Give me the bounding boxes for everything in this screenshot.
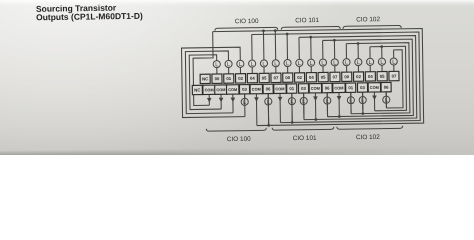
terminal top 6 07 xyxy=(271,73,281,82)
junction xyxy=(291,121,294,124)
terminal bottom 15 COM xyxy=(368,83,380,92)
svg-text:00: 00 xyxy=(215,76,220,81)
svg-text:COM: COM xyxy=(370,85,379,90)
wire bottom riser loop L5 xyxy=(350,92,352,113)
svg-text:03: 03 xyxy=(242,87,247,92)
load L on output 05 (top col 5) xyxy=(260,60,267,67)
svg-text:06: 06 xyxy=(266,86,271,91)
wire loop L7 top bus xyxy=(386,50,403,108)
junction xyxy=(309,36,312,39)
wire T1 left leg wrap xyxy=(193,32,214,106)
wire below load bottom col 9 xyxy=(303,104,305,119)
wire left wrap 3 xyxy=(189,55,221,110)
load L on output 04 (top col 9) xyxy=(308,59,315,66)
wire drop bottom COM3 xyxy=(232,94,234,113)
svg-text:02: 02 xyxy=(238,76,243,81)
terminal bottom 8 01 xyxy=(287,84,297,93)
wire stub load 00 top xyxy=(216,68,218,74)
bracket CIO 100 top xyxy=(215,27,278,30)
svg-text:L: L xyxy=(326,99,329,105)
wire below load bottom col 6 xyxy=(267,105,269,125)
svg-text:L: L xyxy=(349,98,352,104)
wire bottom riser loop L3 xyxy=(303,93,305,120)
wire below load bottom col 16 xyxy=(385,103,387,108)
svg-text:03: 03 xyxy=(301,86,306,91)
svg-text:L: L xyxy=(262,62,265,68)
svg-text:COM: COM xyxy=(252,87,261,92)
svg-text:04: 04 xyxy=(368,74,373,79)
svg-text:07: 07 xyxy=(274,75,279,80)
supply arrow under COM (bottom col 3) xyxy=(231,98,236,103)
junction xyxy=(274,29,277,32)
bracket CIO 102 top xyxy=(343,25,401,28)
wire drop to load x=335 xyxy=(333,40,335,59)
svg-text:COM: COM xyxy=(216,87,225,92)
wire below load bottom col 8 xyxy=(291,105,293,123)
wire below load bottom col 14 xyxy=(362,104,364,111)
svg-text:CIO 100: CIO 100 xyxy=(227,136,251,143)
load L on output 00 (top col 12) xyxy=(343,59,350,66)
svg-text:L: L xyxy=(357,60,360,66)
load L on output 01 (top col 2) xyxy=(225,60,232,67)
svg-text:L: L xyxy=(361,98,364,104)
wire left wrap 1 xyxy=(182,47,245,117)
terminal bottom 12 COM xyxy=(333,83,345,92)
wire stub load 05 top xyxy=(322,66,324,72)
svg-text:L: L xyxy=(380,60,383,66)
terminal top 14 04 xyxy=(365,72,375,81)
svg-text:02: 02 xyxy=(356,74,361,79)
svg-text:CIO 102: CIO 102 xyxy=(356,134,380,141)
terminal top 16 07 xyxy=(389,71,399,80)
load L on output 02 (top col 3) xyxy=(237,60,244,67)
load L on output 01 (bottom col 8) xyxy=(291,93,293,97)
svg-text:L: L xyxy=(345,60,348,66)
load L on output 07 (top col 16) xyxy=(390,58,397,65)
svg-text:COM: COM xyxy=(205,87,214,92)
svg-text:L: L xyxy=(302,99,305,105)
svg-text:04: 04 xyxy=(309,75,314,80)
junction xyxy=(286,33,289,36)
svg-text:L: L xyxy=(274,61,277,67)
wire stub load 00 top xyxy=(346,66,348,72)
junction xyxy=(267,124,270,127)
svg-text:L: L xyxy=(298,61,301,67)
terminal top 11 07 xyxy=(330,72,340,81)
wire loop L5 top bus xyxy=(346,43,410,114)
junction xyxy=(357,42,360,45)
svg-text:CIO 102: CIO 102 xyxy=(356,16,380,23)
terminal top 4 04 xyxy=(247,73,257,82)
terminal top 5 05 xyxy=(259,73,269,82)
load L on output 05 (top col 10) xyxy=(319,59,326,66)
junction xyxy=(314,118,317,121)
wire drop to load x=311 xyxy=(310,37,312,59)
wire stub load 02 top xyxy=(239,67,241,73)
terminal top 13 02 xyxy=(353,72,363,81)
svg-text:L: L xyxy=(243,100,246,106)
load L on output 01 (bottom col 13) xyxy=(350,92,352,96)
wire stub load 00 top xyxy=(287,67,289,73)
svg-text:07: 07 xyxy=(392,74,397,79)
svg-text:CIO 101: CIO 101 xyxy=(293,135,317,142)
svg-text:NC: NC xyxy=(194,87,200,92)
wire stub load 02 top xyxy=(357,66,359,72)
svg-text:L: L xyxy=(321,61,324,67)
junction xyxy=(262,29,265,32)
svg-text:L: L xyxy=(251,62,254,68)
load L on output 00 (top col 1) xyxy=(213,61,220,68)
svg-text:COM: COM xyxy=(311,86,320,91)
terminal top 10 05 xyxy=(318,72,328,81)
load L on output 02 (top col 8) xyxy=(296,59,303,66)
wire stub load 01 top xyxy=(228,68,230,74)
wire loop L3 top bus xyxy=(299,36,417,120)
svg-text:L: L xyxy=(369,60,372,66)
load L on output 05 (top col 15) xyxy=(378,58,385,65)
terminal top 9 04 xyxy=(306,73,316,82)
svg-text:COM: COM xyxy=(275,86,284,91)
svg-text:L: L xyxy=(392,60,395,66)
svg-text:01: 01 xyxy=(226,76,231,81)
supply arrow under COM (bottom col 15) xyxy=(372,95,377,100)
svg-text:CIO 100: CIO 100 xyxy=(235,18,259,25)
wire bottom riser loop L4 xyxy=(326,93,328,117)
terminal bottom 7 COM xyxy=(274,84,286,93)
wire drop bottom x=339 xyxy=(338,93,340,117)
load L on output 00 (top col 7) xyxy=(284,59,291,66)
supply arrow under COM (bottom col 5) xyxy=(254,97,259,102)
svg-text:L: L xyxy=(385,98,388,104)
terminal bottom 11 06 xyxy=(322,83,332,92)
load L on output 02 (top col 13) xyxy=(355,58,362,65)
wire drop bottom x=268 xyxy=(267,94,269,126)
wire drop to load x=276 xyxy=(274,31,276,60)
terminal bottom 16 06 xyxy=(381,82,391,91)
wire bottom riser loop L1 xyxy=(255,94,257,126)
svg-text:00: 00 xyxy=(344,74,349,79)
svg-text:00: 00 xyxy=(285,75,290,80)
terminal bottom 2 COM xyxy=(215,85,227,94)
wire riser loop L2 xyxy=(251,35,253,61)
terminal bottom 14 03 xyxy=(357,83,367,92)
wire riser loop L3 xyxy=(298,37,300,59)
wire stub load 05 top xyxy=(263,67,265,73)
load L on output 03 (bottom col 4) xyxy=(244,94,246,98)
load L on output 04 (top col 4) xyxy=(249,60,256,67)
terminal bottom 6 06 xyxy=(263,84,273,93)
supply arrow under COM (bottom col 1) xyxy=(207,98,212,103)
svg-text:03: 03 xyxy=(360,85,365,90)
terminal top 7 00 xyxy=(283,73,293,82)
terminal bottom 4 03 xyxy=(239,85,249,94)
terminal top 2 01 xyxy=(224,74,234,83)
svg-text:05: 05 xyxy=(262,75,267,80)
terminal bottom 1 COM xyxy=(203,85,215,94)
svg-text:05: 05 xyxy=(321,75,326,80)
supply arrow under COM (bottom col 10) xyxy=(313,96,318,101)
svg-text:05: 05 xyxy=(380,74,385,79)
svg-text:L: L xyxy=(310,61,313,67)
load L on output 07 (top col 6) xyxy=(272,60,279,67)
wire loop L6 top bus xyxy=(370,46,407,111)
terminal top 8 02 xyxy=(294,73,304,82)
terminal bottom 3 COM xyxy=(226,85,238,94)
wire drop to load x=382 xyxy=(381,47,383,59)
wire drop to load x=264 xyxy=(262,31,264,60)
wire stub load 05 top xyxy=(381,65,383,71)
svg-text:COM: COM xyxy=(334,85,343,90)
terminal top 3 02 xyxy=(236,74,246,83)
wire drop bottom x=362 xyxy=(362,92,364,113)
wire stub load 07 top xyxy=(334,66,336,72)
terminal bottom 10 COM xyxy=(309,83,321,92)
supply arrow under COM (bottom col 7) xyxy=(278,97,283,102)
bracket CIO 100 bottom xyxy=(206,128,266,131)
svg-text:NC: NC xyxy=(202,76,208,81)
wire riser loop L4 xyxy=(322,40,324,59)
svg-text:06: 06 xyxy=(384,85,389,90)
wire riser loop L5 xyxy=(345,44,347,59)
load L on output 06 (bottom col 11) xyxy=(326,93,328,97)
wire loop L2 top bus xyxy=(252,32,420,123)
terminal top 0 NC xyxy=(200,74,210,83)
junction xyxy=(362,112,365,115)
svg-text:L: L xyxy=(239,62,242,68)
svg-text:06: 06 xyxy=(325,86,330,91)
terminal bottom 0 NC xyxy=(192,85,202,94)
wire below load bottom col 11 xyxy=(326,104,328,117)
svg-text:L: L xyxy=(286,61,289,67)
wire left wrap 2 xyxy=(185,51,233,114)
wire loop L1 top bus xyxy=(213,28,424,126)
svg-text:CIO 101: CIO 101 xyxy=(295,17,319,24)
load L on output 03 (bottom col 9) xyxy=(303,93,305,97)
wire drop bottom COM2 xyxy=(220,94,222,109)
wire drop bottom x=315 xyxy=(314,93,316,120)
junction xyxy=(338,115,341,118)
supply arrow under COM (bottom col 2) xyxy=(219,98,224,103)
bracket CIO 102 bottom xyxy=(337,126,403,129)
wire stub load 04 top xyxy=(251,67,253,73)
wire stub load 04 top xyxy=(369,65,371,71)
terminal top 15 05 xyxy=(377,72,387,81)
wire below load bottom col 13 xyxy=(350,104,352,114)
wire stub load 07 top xyxy=(393,65,395,71)
svg-text:07: 07 xyxy=(333,74,338,79)
terminal top 1 00 xyxy=(212,74,222,83)
wire loop L4 top bus xyxy=(323,39,414,117)
svg-text:Outputs (CP1L-M60DT1-D): Outputs (CP1L-M60DT1-D) xyxy=(36,11,143,23)
load L on output 07 (top col 11) xyxy=(331,59,338,66)
load L on output 04 (top col 14) xyxy=(367,58,374,65)
svg-text:02: 02 xyxy=(297,75,302,80)
junction xyxy=(333,39,336,42)
wire drop bottom x=292 xyxy=(291,93,293,122)
svg-text:L: L xyxy=(290,99,293,105)
terminal bottom 13 01 xyxy=(346,83,356,92)
wire riser loop L6 xyxy=(369,47,371,59)
svg-text:COM: COM xyxy=(228,87,237,92)
wire stub load 07 top xyxy=(275,67,277,73)
junction xyxy=(380,45,383,48)
wire stub load 02 top xyxy=(298,67,300,73)
svg-text:L: L xyxy=(227,62,230,68)
wire bottom riser loop L7 xyxy=(385,92,387,108)
svg-text:01: 01 xyxy=(348,85,353,90)
wire drop bottom COM1 xyxy=(208,94,210,105)
wire drop to load x=288 xyxy=(286,34,288,60)
svg-text:L: L xyxy=(333,60,336,66)
load L on output 06 (bottom col 6) xyxy=(267,94,269,98)
wire stub load 04 top xyxy=(310,66,312,72)
bracket CIO 101 bottom xyxy=(272,127,334,130)
terminal bottom 5 COM xyxy=(250,84,262,93)
wire riser loop L7 xyxy=(393,50,395,58)
wire drop bottom 03 xyxy=(244,94,246,117)
svg-text:L: L xyxy=(215,62,218,68)
load L on output 03 (bottom col 14) xyxy=(362,92,364,96)
svg-text:L: L xyxy=(267,100,270,106)
terminal top 12 00 xyxy=(342,72,352,81)
svg-text:04: 04 xyxy=(250,76,255,81)
svg-text:01: 01 xyxy=(289,86,294,91)
supply arrow under COM (bottom col 12) xyxy=(337,96,342,101)
wire drop to load x=359 xyxy=(357,43,359,58)
load L on output 06 (bottom col 16) xyxy=(385,92,387,96)
terminal bottom 9 03 xyxy=(298,84,308,93)
wire bottom riser loop L6 xyxy=(373,92,375,111)
wire bottom riser loop L2 xyxy=(279,93,281,122)
bracket CIO 101 top xyxy=(281,26,340,29)
